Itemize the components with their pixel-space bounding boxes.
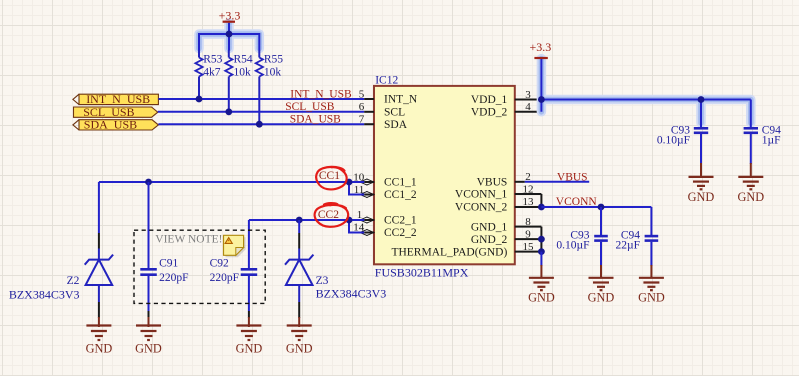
svg-text:Z2: Z2 bbox=[67, 275, 80, 287]
annotation red circle around CC2 bbox=[315, 203, 349, 227]
svg-text:3: 3 bbox=[525, 89, 531, 101]
wire gnd drop below pin15 bbox=[540, 252, 542, 266]
ground GND under C92 bbox=[236, 326, 263, 356]
svg-text:GND_1: GND_1 bbox=[471, 221, 508, 233]
junction R55/SDA bbox=[256, 121, 263, 128]
svg-text:VBUS: VBUS bbox=[557, 171, 588, 183]
note icon bbox=[224, 235, 246, 257]
pin 6 SCL bbox=[359, 101, 405, 119]
wire C94 bottom gnd stub bbox=[650, 265, 652, 279]
zener diode Z2 bbox=[9, 182, 113, 318]
svg-text:0.10µF: 0.10µF bbox=[556, 239, 589, 251]
ground GND under C91 bbox=[135, 326, 162, 356]
svg-text:THERMAL_PAD(GND): THERMAL_PAD(GND) bbox=[391, 246, 507, 258]
wire CC2 bbox=[249, 219, 364, 221]
wire Z2 gnd stub bbox=[98, 317, 100, 327]
svg-text:VCONN_1: VCONN_1 bbox=[455, 189, 508, 201]
wire +3.3 rail (right) bbox=[541, 59, 750, 128]
svg-text:GND: GND bbox=[737, 190, 764, 204]
svg-text:BZX384C3V3: BZX384C3V3 bbox=[316, 287, 387, 301]
wire pin12 to pin13 connector bbox=[540, 194, 542, 207]
svg-text:+3.3: +3.3 bbox=[219, 9, 241, 23]
resistor R53 bbox=[195, 51, 222, 100]
resistor R54 bbox=[225, 51, 253, 112]
wire SCL_USB bbox=[158, 111, 364, 113]
svg-text:R55: R55 bbox=[264, 54, 283, 66]
pin 12 VCONN_1 bbox=[455, 183, 541, 200]
pin 13 VCONN_2 bbox=[455, 196, 541, 214]
svg-text:FUSB302B11MPX: FUSB302B11MPX bbox=[375, 266, 469, 280]
zener diode Z3 bbox=[285, 220, 386, 318]
junction pin3/+3.3 bbox=[538, 96, 545, 103]
svg-text:C91: C91 bbox=[159, 258, 178, 270]
note box dashed bbox=[134, 230, 265, 303]
pin 5 INT_N bbox=[359, 88, 418, 105]
pin 8 GND_1 bbox=[471, 216, 542, 233]
ground GND under C94 top bbox=[737, 177, 764, 204]
junction CC1 pins bbox=[346, 179, 353, 186]
ground GND under C93 bottom bbox=[588, 278, 615, 305]
svg-text:SDA_USB: SDA_USB bbox=[84, 118, 137, 132]
wire SDA_USB bbox=[158, 123, 364, 125]
svg-text:SDA_USB: SDA_USB bbox=[290, 114, 341, 126]
svg-text:9: 9 bbox=[525, 228, 531, 240]
svg-text:10k: 10k bbox=[234, 66, 252, 78]
pin 9 GND_2 bbox=[471, 228, 542, 245]
port SDA_USB bbox=[73, 118, 158, 132]
wire pin8/9/15 gnd connector bbox=[540, 227, 542, 252]
power +3.3 (right) bbox=[530, 40, 552, 58]
svg-text:4k7: 4k7 bbox=[203, 66, 221, 78]
wire INT_N_USB bbox=[158, 98, 364, 100]
wire VBUS bbox=[525, 181, 589, 183]
pin 2 VBUS bbox=[477, 171, 531, 189]
op-amp/IC body U=IC12 bbox=[374, 86, 515, 264]
junction pin13/VCONN bbox=[538, 204, 545, 211]
ground GND under IC bbox=[528, 278, 555, 305]
net +3.3 highlight glow (right) bbox=[541, 59, 750, 123]
wire C93 bottom gnd stub bbox=[600, 265, 602, 279]
wire CC1 bbox=[99, 181, 364, 183]
resistor R55 bbox=[256, 51, 284, 125]
svg-text:13: 13 bbox=[523, 196, 535, 208]
svg-text:VIEW NOTE!: VIEW NOTE! bbox=[155, 234, 222, 246]
svg-text:220pF: 220pF bbox=[159, 272, 188, 284]
ground GND under C94 bottom bbox=[638, 278, 665, 305]
svg-text:CC2_2: CC2_2 bbox=[384, 227, 417, 239]
power +3.3 (left) bbox=[219, 9, 241, 23]
svg-text:GND: GND bbox=[286, 342, 313, 356]
svg-text:7: 7 bbox=[359, 114, 365, 126]
wire +3.3 manifold (left) bbox=[199, 23, 259, 51]
pin 14 CC2_2 bbox=[353, 222, 417, 240]
svg-text:GND_2: GND_2 bbox=[471, 234, 508, 246]
pin 10 CC1_1 bbox=[353, 171, 417, 188]
svg-text:VCONN_2: VCONN_2 bbox=[455, 202, 508, 214]
svg-text:8: 8 bbox=[525, 216, 531, 228]
pin 4 VDD_2 bbox=[471, 101, 542, 118]
ground GND under C93 top bbox=[688, 177, 715, 204]
ground GND under Z3 bbox=[286, 326, 313, 356]
svg-text:Z3: Z3 bbox=[316, 275, 329, 287]
capacitor C93 (0.10uF bottom) bbox=[556, 207, 607, 266]
annotation red circle around CC1 bbox=[316, 167, 347, 190]
svg-text:VDD_1: VDD_1 bbox=[471, 94, 508, 106]
pin 15 THERMAL_PAD(GND) bbox=[391, 241, 541, 258]
capacitor C92 bbox=[210, 220, 258, 318]
svg-text:GND: GND bbox=[236, 342, 263, 356]
capacitor C94 (22uF bottom) bbox=[615, 207, 658, 266]
svg-text:4: 4 bbox=[525, 101, 531, 113]
svg-text:15: 15 bbox=[523, 241, 535, 253]
svg-text:6: 6 bbox=[359, 101, 365, 113]
capacitor C91 bbox=[140, 182, 188, 318]
svg-text:BZX384C3V3: BZX384C3V3 bbox=[9, 288, 80, 302]
svg-text:1µF: 1µF bbox=[762, 134, 781, 146]
svg-text:R53: R53 bbox=[203, 54, 222, 66]
junction CC2 pins bbox=[346, 217, 353, 224]
junction VCONN/C93 bbox=[598, 204, 605, 211]
net +3.3 highlight glow (left) bbox=[199, 23, 259, 49]
svg-text:INT_N_USB: INT_N_USB bbox=[290, 89, 352, 101]
svg-text:CC1: CC1 bbox=[319, 170, 340, 182]
junction R53/INT_N bbox=[196, 96, 203, 103]
wire CC1 branch to pin 11 bbox=[349, 182, 364, 195]
wire C92 gnd stub bbox=[248, 317, 250, 327]
svg-text:GND: GND bbox=[135, 342, 162, 356]
wire VCONN bbox=[541, 206, 651, 208]
svg-text:22µF: 22µF bbox=[615, 239, 640, 251]
svg-text:SCL: SCL bbox=[384, 107, 405, 119]
junction CC2/Z3 bbox=[296, 217, 303, 224]
wire C91 gnd stub bbox=[148, 317, 150, 327]
svg-text:CC1_1: CC1_1 bbox=[384, 177, 417, 189]
svg-text:R54: R54 bbox=[234, 54, 253, 66]
svg-text:12: 12 bbox=[523, 183, 534, 195]
svg-text:VCONN: VCONN bbox=[556, 196, 598, 208]
svg-text:GND: GND bbox=[528, 291, 555, 305]
port SCL_USB bbox=[74, 105, 158, 119]
svg-text:INT_N: INT_N bbox=[384, 94, 418, 106]
junction R54/SCL bbox=[225, 108, 232, 115]
wire C94 top gnd stub bbox=[750, 163, 752, 178]
capacitor C93 (0.10uF top) bbox=[657, 124, 708, 164]
junction pin9 bbox=[538, 236, 545, 243]
svg-text:GND: GND bbox=[588, 291, 615, 305]
junction CC1/C91 bbox=[145, 179, 152, 186]
pin 3 VDD_1 bbox=[471, 89, 542, 106]
svg-text:CC2_1: CC2_1 bbox=[384, 215, 417, 227]
pin 11 CC1_2 bbox=[354, 184, 417, 201]
svg-text:10k: 10k bbox=[264, 66, 282, 78]
junction C93 top bbox=[698, 96, 705, 103]
svg-text:GND: GND bbox=[688, 190, 715, 204]
svg-text:5: 5 bbox=[359, 88, 365, 100]
svg-text:+3.3: +3.3 bbox=[530, 40, 552, 54]
svg-text:VDD_2: VDD_2 bbox=[471, 107, 508, 119]
wire Z3 gnd stub bbox=[298, 317, 300, 327]
svg-text:GND: GND bbox=[638, 291, 665, 305]
svg-text:SCL_USB: SCL_USB bbox=[285, 101, 335, 113]
pin 7 SDA bbox=[359, 114, 408, 131]
svg-text:GND: GND bbox=[86, 342, 113, 356]
svg-text:CC2: CC2 bbox=[318, 209, 339, 221]
wire C93 top gnd stub bbox=[700, 163, 702, 178]
pin 1 CC2_1 bbox=[357, 209, 417, 227]
capacitor C94 (1uF top) bbox=[744, 124, 782, 164]
svg-text:0.10µF: 0.10µF bbox=[657, 134, 690, 146]
svg-text:SDA: SDA bbox=[384, 119, 408, 131]
svg-text:220pF: 220pF bbox=[210, 272, 239, 284]
port INT_N_USB bbox=[73, 92, 158, 106]
svg-text:VBUS: VBUS bbox=[477, 177, 508, 189]
ground GND under Z2 bbox=[86, 326, 113, 356]
junction pin15 bbox=[538, 248, 545, 255]
wire CC2 branch to pin 14 bbox=[349, 220, 364, 233]
svg-text:IC12: IC12 bbox=[375, 75, 398, 87]
svg-text:CC1_2: CC1_2 bbox=[384, 189, 417, 201]
junction at +3.3 manifold bbox=[226, 31, 233, 38]
svg-text:C92: C92 bbox=[210, 258, 229, 270]
